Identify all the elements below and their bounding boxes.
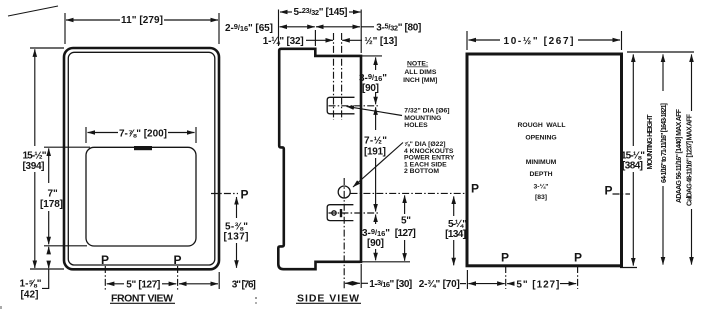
svg-text:2-¾" [70]: 2-¾" [70] xyxy=(419,279,460,290)
mounting hole center line horizontal xyxy=(329,105,381,107)
dim 5-23/32 [145] xyxy=(280,11,292,13)
svg-text:10-½" [267]: 10-½" [267] xyxy=(504,36,574,47)
svg-text:MOUNTING: MOUNTING xyxy=(404,115,441,122)
dim 5in [127] front bottom xyxy=(107,283,124,285)
svg-text:5" [127]: 5" [127] xyxy=(126,280,160,291)
dim 1-3/16 [30] arrows xyxy=(345,282,360,284)
dim 5in [127] mid xyxy=(404,195,406,214)
svg-text:[90]: [90] xyxy=(367,238,384,249)
dim 10-1/2 extensions xyxy=(466,31,468,50)
svg-text:64-1/16" to 71-11/16" [1643-18: 64-1/16" to 71-11/16" [1643-1821] xyxy=(661,103,668,183)
svg-text:P: P xyxy=(574,251,582,265)
left extension bottom rail xyxy=(44,245,87,247)
svg-text:ROUGH WALL: ROUGH WALL xyxy=(518,122,566,129)
svg-text:[137]: [137] xyxy=(224,232,249,243)
dim 5in [127] wall bottom xyxy=(507,283,514,285)
front view outer body xyxy=(64,48,219,269)
svg-text:1-¼" [32]: 1-¼" [32] xyxy=(263,36,304,47)
svg-text:HOLES: HOLES xyxy=(404,122,428,129)
svg-text:1-3/16" [30]: 1-3/16" [30] xyxy=(369,278,412,290)
svg-text:[394]: [394] xyxy=(23,161,45,172)
dim 15-1/2 [394] xyxy=(34,49,36,146)
dim 1-5/8 [42] arrows xyxy=(48,247,50,252)
svg-text:MOUNTING HEIGHT: MOUNTING HEIGHT xyxy=(647,114,654,170)
P right center line xyxy=(613,193,631,195)
mounting height line xyxy=(662,54,664,91)
extension right bottom front view xyxy=(218,272,220,289)
svg-text:[83]: [83] xyxy=(535,194,547,201)
lower mounting bracket xyxy=(327,205,353,221)
svg-text:P: P xyxy=(501,251,509,265)
dim 7-7/8 [200] xyxy=(88,132,119,134)
side view top extension front face xyxy=(278,10,280,47)
svg-text:[42]: [42] xyxy=(21,290,39,301)
CalDAG line xyxy=(691,54,693,111)
side view profile xyxy=(278,49,361,269)
dim 5-3/8 [137] xyxy=(236,197,238,218)
svg-text:SIDE VIEW: SIDE VIEW xyxy=(297,293,359,305)
svg-text:7/32" DIA [Ø6]: 7/32" DIA [Ø6] xyxy=(404,108,449,115)
P center line right side front view xyxy=(211,193,238,195)
svg-text:½" [13]: ½" [13] xyxy=(364,36,397,47)
svg-text:1-⅝": 1-⅝" xyxy=(20,279,42,290)
svg-text:2-9/16" [65]: 2-9/16" [65] xyxy=(225,22,273,34)
scan artifact diagonal xyxy=(8,6,58,16)
knockout center line vertical xyxy=(343,178,345,290)
leader to mounting holes xyxy=(347,106,403,115)
svg-text:[90]: [90] xyxy=(362,83,379,94)
svg-text:11" [279]: 11" [279] xyxy=(121,15,163,26)
wall bottom right extension xyxy=(620,267,637,269)
svg-text:2 BOTTOM: 2 BOTTOM xyxy=(404,168,439,175)
svg-text:3" [76]: 3" [76] xyxy=(232,280,256,291)
wall top right extension xyxy=(627,51,694,53)
svg-text:P: P xyxy=(174,253,182,267)
dim 3in [76] front bottom xyxy=(179,283,218,285)
dim 15-1/8 [384] xyxy=(632,54,634,146)
svg-text:DEPTH: DEPTH xyxy=(529,171,552,178)
dim 5-1/4 [134] xyxy=(453,196,455,216)
svg-text:5-23/32" [145]: 5-23/32" [145] xyxy=(294,6,348,18)
left extension bottom xyxy=(30,268,64,270)
svg-text:7": 7" xyxy=(48,189,59,200)
dim 11in extension left xyxy=(64,13,66,44)
svg-text:[127]: [127] xyxy=(395,228,416,239)
svg-text:NOTE:: NOTE: xyxy=(407,61,428,68)
svg-text:[384]: [384] xyxy=(622,161,643,172)
rough wall opening rect xyxy=(467,54,622,266)
svg-text:P: P xyxy=(241,188,249,202)
svg-text:[134]: [134] xyxy=(445,229,466,240)
dim 7-7/8 extensions xyxy=(85,127,87,143)
extension body back bottom xyxy=(360,264,362,288)
svg-text:7-½": 7-½" xyxy=(364,136,387,147)
svg-text:5" [127]: 5" [127] xyxy=(516,279,559,290)
leader to knockout xyxy=(353,143,403,188)
lower bracket center line xyxy=(329,212,381,214)
dim 3-9/16 [90] lower xyxy=(375,215,377,225)
P center line wall bottom left xyxy=(505,266,507,289)
svg-text:OPENING: OPENING xyxy=(525,135,556,142)
extension body top right xyxy=(362,55,382,57)
scan specks xyxy=(255,297,257,299)
svg-text:[178]: [178] xyxy=(40,199,63,210)
dim 2-3/4 [70] arrows xyxy=(460,283,466,285)
upper mounting bracket xyxy=(327,97,354,114)
side view extension body back xyxy=(360,10,362,54)
svg-text:FRONT VIEW: FRONT VIEW xyxy=(111,293,173,305)
svg-text:[191]: [191] xyxy=(364,147,386,158)
dim 11in extension right xyxy=(218,13,220,44)
svg-text:P: P xyxy=(605,184,613,198)
P center line wall bottom right xyxy=(577,266,579,289)
dim 1/2 [13] xyxy=(342,39,362,41)
side view extension flange back xyxy=(314,30,316,46)
mounting hole center line vertical 1 xyxy=(333,33,335,120)
svg-text:P: P xyxy=(101,253,109,267)
dim 7in [178] xyxy=(48,148,50,183)
P center line long horizontal xyxy=(351,192,467,194)
seam line left of opening xyxy=(44,146,90,148)
dim 10-1/2 [267] xyxy=(469,39,501,41)
svg-text:5": 5" xyxy=(401,216,411,227)
dim 3-9/16 [90] upper xyxy=(375,57,377,70)
dim 11in [279] xyxy=(66,19,120,21)
lower bracket plus mark xyxy=(340,209,342,217)
door push notch xyxy=(134,146,152,150)
svg-text:INCH [MM]: INCH [MM] xyxy=(403,77,437,84)
left extension top xyxy=(30,47,64,49)
svg-text:7-⅞" [200]: 7-⅞" [200] xyxy=(119,129,167,140)
front view inner face line xyxy=(68,52,215,265)
svg-text:P: P xyxy=(471,182,479,196)
svg-text:3-¼": 3-¼" xyxy=(534,183,549,191)
dim 3-5/32 [80] xyxy=(316,26,330,28)
mounting hole center line vertical 2 xyxy=(341,33,343,120)
svg-text:MINIMUM: MINIMUM xyxy=(526,159,557,166)
lower bracket small hole xyxy=(332,211,336,215)
svg-text:3-5/32" [80]: 3-5/32" [80] xyxy=(376,21,421,33)
svg-text:ALL DIMS: ALL DIMS xyxy=(404,69,436,76)
P center line bottom left xyxy=(104,266,106,290)
knockout circle xyxy=(338,186,350,198)
svg-text:CalDAG 48-11/16" [1237] MAX AF: CalDAG 48-11/16" [1237] MAX AFF xyxy=(686,113,693,206)
wall bottom left extension xyxy=(466,270,468,289)
dim 7-1/2 [191] xyxy=(375,107,377,130)
P center line bottom right xyxy=(177,266,179,290)
extension body bottom right xyxy=(362,261,410,263)
front view door opening xyxy=(86,147,196,246)
dim 1-5/8 leader tail xyxy=(42,269,49,288)
svg-text:ADAAG 56-11/16" [1440] MAX AFF: ADAAG 56-11/16" [1440] MAX AFF xyxy=(676,108,683,203)
